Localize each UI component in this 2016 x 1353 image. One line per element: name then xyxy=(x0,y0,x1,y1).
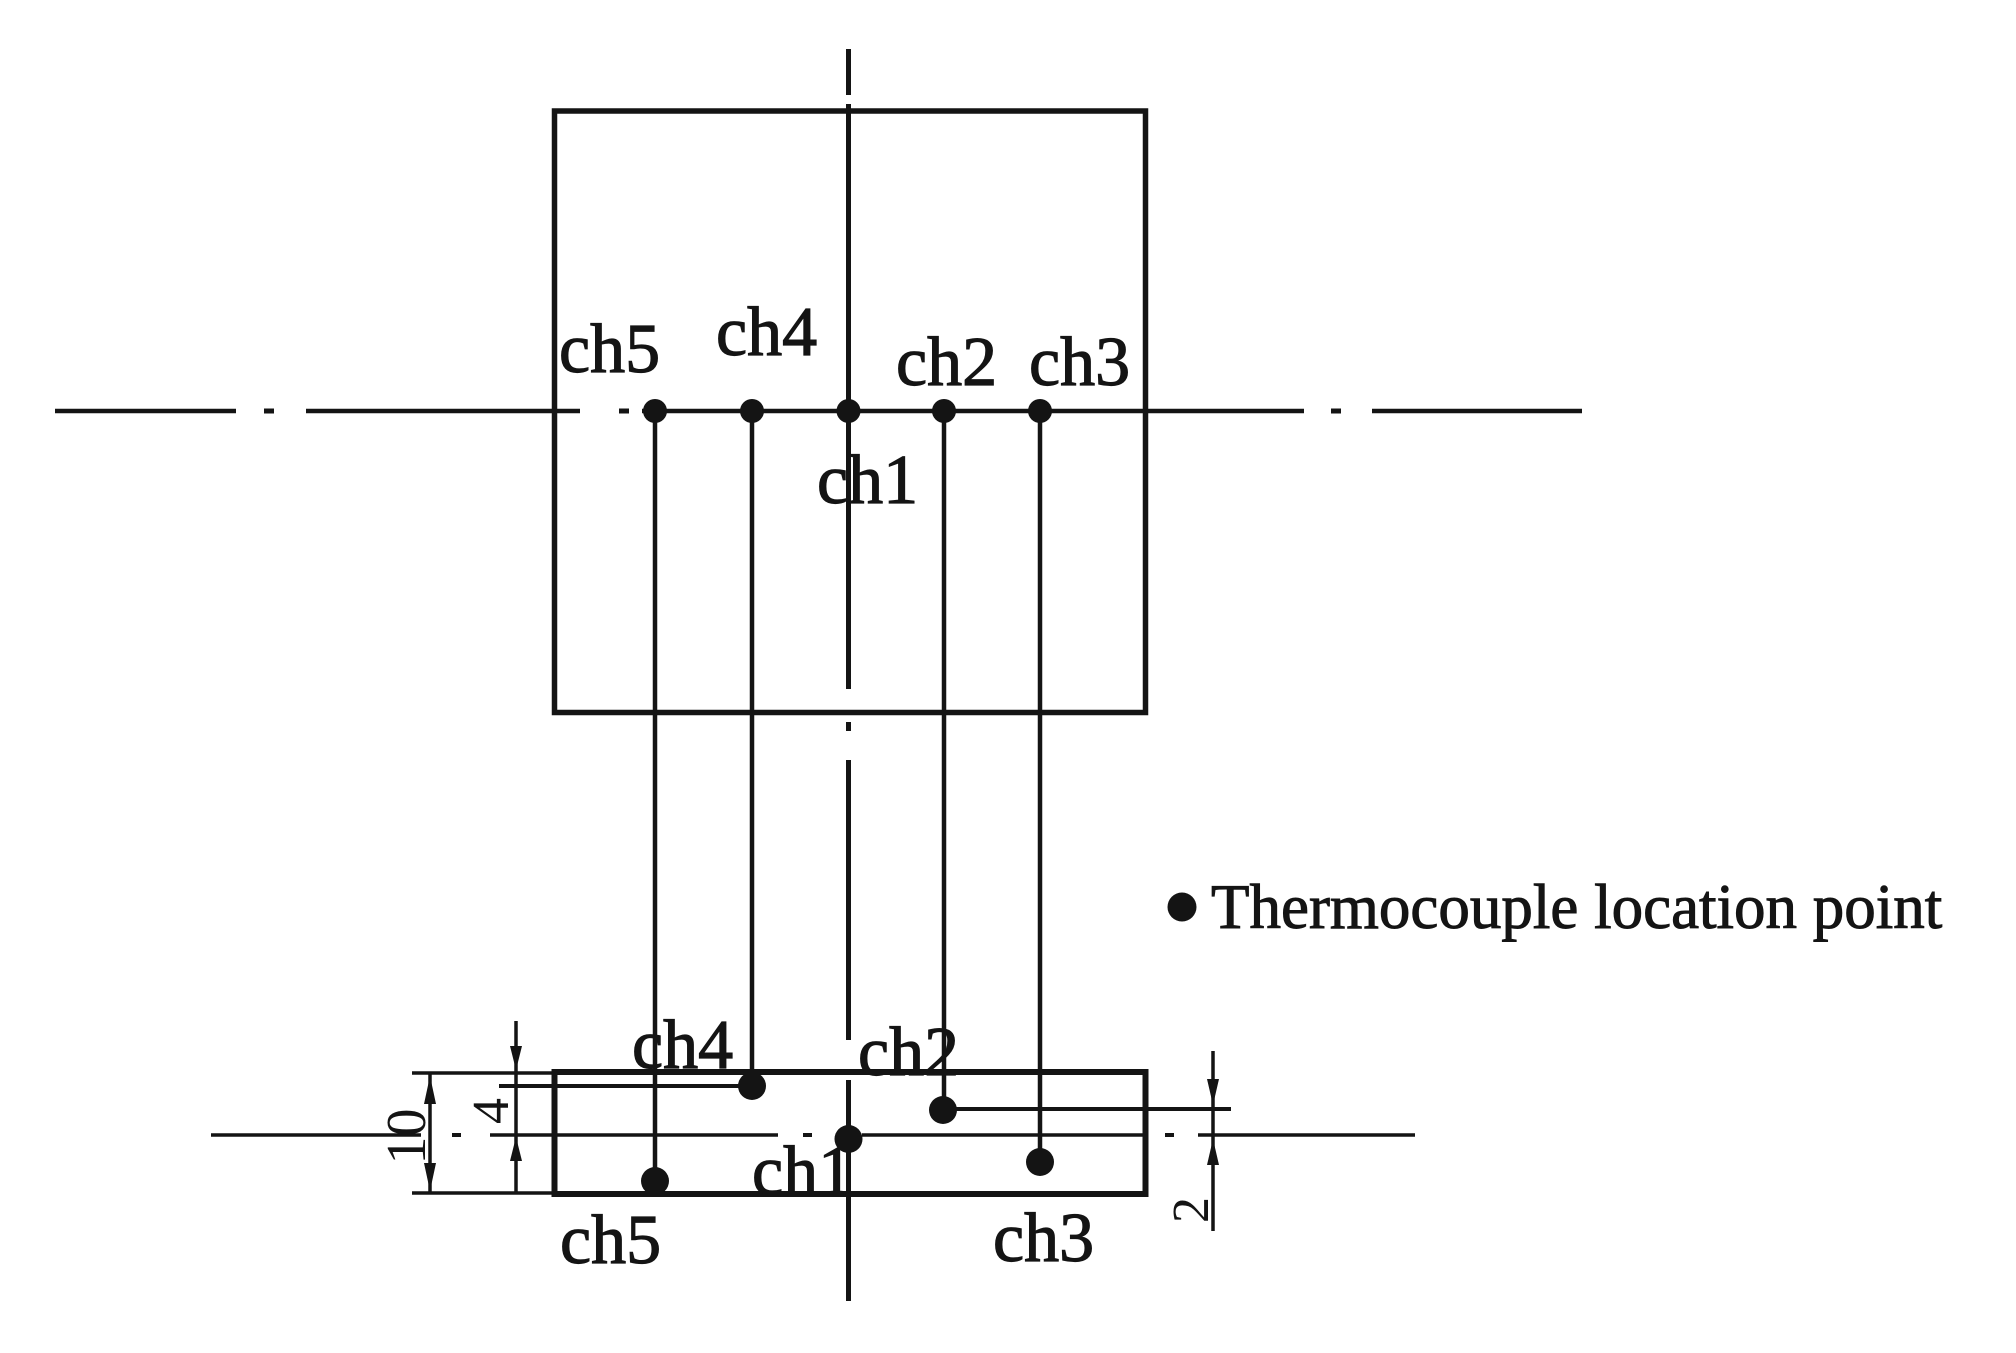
svg-text:Thermocouple location point: Thermocouple location point xyxy=(1211,872,1943,942)
svg-text:ch1: ch1 xyxy=(752,1133,853,1210)
svg-text:ch4: ch4 xyxy=(716,294,817,371)
svg-text:ch2: ch2 xyxy=(858,1014,959,1091)
svg-text:ch5: ch5 xyxy=(559,311,660,388)
svg-text:10: 10 xyxy=(376,1109,438,1165)
svg-text:4: 4 xyxy=(463,1098,520,1124)
svg-text:ch2: ch2 xyxy=(896,324,997,401)
svg-text:ch4: ch4 xyxy=(632,1007,733,1084)
svg-text:2: 2 xyxy=(1163,1197,1220,1223)
svg-text:ch3: ch3 xyxy=(1029,324,1130,401)
svg-text:ch3: ch3 xyxy=(993,1200,1094,1277)
svg-text:ch1: ch1 xyxy=(817,442,918,519)
svg-text:ch5: ch5 xyxy=(560,1202,661,1279)
